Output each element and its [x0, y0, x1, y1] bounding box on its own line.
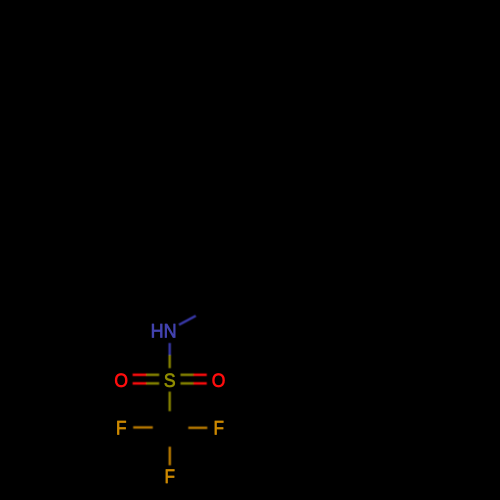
svg-text:F: F — [214, 418, 225, 440]
wire N-S bond upper half (blue) — [168, 343, 170, 355]
svg-text:S: S — [164, 370, 176, 392]
wire N-S bond lower half (olive) — [168, 355, 170, 368]
wire C-F right bond, F half (orange) — [188, 427, 207, 429]
wire N-CH2 bond, N half (blue) — [179, 316, 196, 325]
wire C-F bottom bond, F half (orange) — [169, 447, 171, 466]
svg-text:HN: HN — [151, 321, 177, 343]
svg-text:O: O — [114, 370, 128, 392]
wire C-F left bond, F half (orange) — [133, 426, 153, 428]
wire S=O left double bond, O half (red) — [133, 374, 147, 377]
svg-text:F: F — [116, 418, 127, 440]
wire S=O left double bond, S half (olive) — [147, 374, 160, 377]
wire S=O right double bond, S half (olive) — [181, 374, 194, 377]
wire S=O right double bond, O half (red) — [193, 374, 206, 377]
wire S-CF3 bond, S half (olive) — [168, 392, 170, 412]
svg-text:O: O — [212, 370, 226, 392]
svg-text:F: F — [165, 466, 176, 488]
